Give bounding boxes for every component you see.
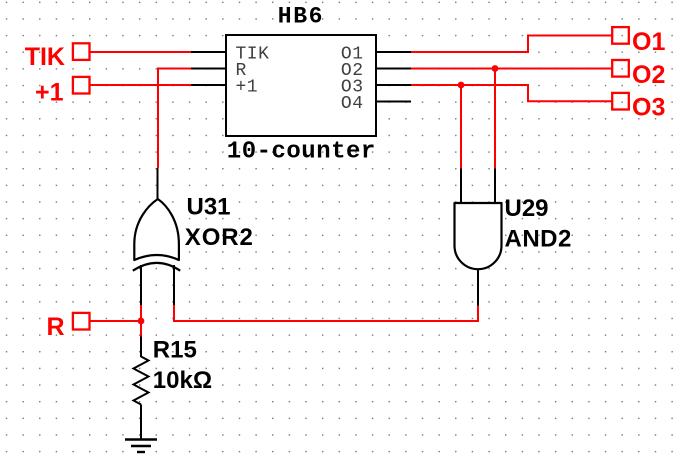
port +1 xyxy=(35,77,90,106)
wire AND2 input leg B (black) xyxy=(494,169,496,205)
svg-text:O2: O2 xyxy=(632,61,665,89)
pin stub TIK (black) xyxy=(191,51,227,53)
svg-text:U29: U29 xyxy=(505,195,549,222)
and gate U29 xyxy=(455,203,502,269)
svg-text:R15: R15 xyxy=(153,337,197,364)
wire O1 net (red) xyxy=(411,36,613,53)
svg-text:TIK: TIK xyxy=(25,43,65,71)
wire XOR2 right input to AND2 output (red) xyxy=(174,305,478,321)
pin stub +1 (black) xyxy=(191,84,227,86)
svg-text:O3: O3 xyxy=(632,94,665,122)
xor gate U31 xyxy=(133,199,180,271)
pin stub O3 (black) xyxy=(375,84,411,86)
svg-text:U31: U31 xyxy=(187,194,231,221)
svg-text:+1: +1 xyxy=(236,77,259,97)
svg-text:R: R xyxy=(46,313,64,341)
junction dot on O3 net xyxy=(458,82,465,89)
pin stub R (black) xyxy=(191,68,227,70)
pin stub O1 (black) xyxy=(375,51,411,53)
wire AND2 output stub (black) xyxy=(477,269,479,306)
resistor R15 xyxy=(134,337,149,440)
pin stub O4 (black) xyxy=(375,101,411,103)
junction dot on O2 net xyxy=(492,65,499,72)
wire R-pin net vertical+horizontal (red) xyxy=(158,69,191,169)
wire XOR2 left input leg (black) xyxy=(140,265,142,305)
wire AND2 input leg A (black) xyxy=(460,169,462,205)
svg-text:AND2: AND2 xyxy=(505,226,572,253)
counter block HB6 xyxy=(226,35,376,136)
wire O3 net (red) xyxy=(411,85,613,101)
wire XOR2 left input / resistor net (red) xyxy=(140,305,142,337)
wire XOR2 right input leg (black) xyxy=(173,265,175,305)
wire +1 net (red) xyxy=(90,84,192,86)
svg-text:HB6: HB6 xyxy=(278,4,324,30)
pin stub O2 (black) xyxy=(375,68,411,70)
wire AND2 input A from O3 junction (red) xyxy=(460,85,462,169)
svg-text:10kΩ: 10kΩ xyxy=(153,367,212,394)
svg-text:+1: +1 xyxy=(35,78,64,106)
port TIK xyxy=(25,43,90,71)
port O3 xyxy=(612,93,665,122)
svg-text:XOR2: XOR2 xyxy=(185,224,254,251)
svg-text:O4: O4 xyxy=(341,94,364,114)
wire R port to junction (red) xyxy=(90,320,142,322)
wire AND2 input B from O2 junction (red) xyxy=(494,69,496,169)
junction dot at R net xyxy=(138,318,145,325)
wire O2 net (red) xyxy=(411,68,613,70)
ground xyxy=(125,440,157,453)
port R xyxy=(46,313,89,341)
wire TIK net (red) xyxy=(90,51,192,53)
svg-text:O1: O1 xyxy=(632,28,665,56)
port O2 xyxy=(612,60,665,89)
wire XOR2 output stub (black) xyxy=(157,168,159,200)
svg-text:10-counter: 10-counter xyxy=(227,139,376,166)
port O1 xyxy=(612,27,665,56)
